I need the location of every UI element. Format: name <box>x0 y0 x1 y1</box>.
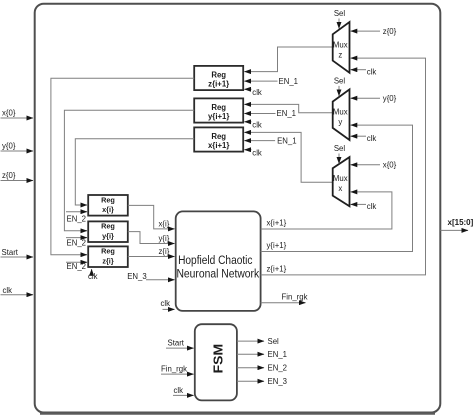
svg-text:clk: clk <box>252 88 262 97</box>
clk pin Mux z <box>351 67 377 76</box>
svg-text:Neuronal Network: Neuronal Network <box>176 267 259 281</box>
svg-text:Fin_rgk: Fin_rgk <box>161 365 187 374</box>
svg-text:clk: clk <box>88 272 98 281</box>
svg-text:z{i}: z{i} <box>159 247 170 256</box>
svg-text:x{0}: x{0} <box>2 109 16 118</box>
svg-text:EN_2: EN_2 <box>67 238 87 247</box>
svg-text:clk: clk <box>3 286 13 295</box>
sel input Mux z <box>334 9 346 28</box>
svg-text:EN_1: EN_1 <box>277 136 297 145</box>
svg-text:x[15:0]: x[15:0] <box>448 218 474 227</box>
sel input Mux y <box>334 77 346 96</box>
svg-text:Start: Start <box>2 248 19 257</box>
svg-text:Mux: Mux <box>333 174 348 183</box>
svg-text:y: y <box>338 118 342 127</box>
signal EN_1 to Reg x{i+1} <box>244 136 296 145</box>
svg-text:Mux: Mux <box>333 40 348 49</box>
svg-text:z{i+1}: z{i+1} <box>208 80 229 89</box>
svg-text:z: z <box>338 50 342 59</box>
svg-text:clk: clk <box>174 386 184 395</box>
svg-text:FSM: FSM <box>211 344 225 374</box>
svg-text:z{i}: z{i} <box>102 256 114 265</box>
svg-text:Reg: Reg <box>211 103 226 112</box>
wire Reg z{i+1} Q to Reg z{i} D <box>51 78 194 255</box>
svg-text:EN_3: EN_3 <box>127 272 147 281</box>
svg-text:x{0}: x{0} <box>383 161 397 170</box>
input z{0} stub into Mux z <box>351 27 397 36</box>
signal EN_1 to Reg y{i+1} <box>244 109 296 118</box>
signal EN_3 to HCNN <box>127 272 174 281</box>
svg-text:x{i+1}: x{i+1} <box>208 141 229 150</box>
output EN_1 from FSM <box>237 350 287 359</box>
block U1 Hopfield Chaotic Neuronal Network <box>176 211 261 311</box>
svg-text:Sel: Sel <box>268 337 280 346</box>
svg-text:y{i}: y{i} <box>102 231 114 240</box>
input x{0} stub into Mux x <box>351 161 397 170</box>
svg-text:clk: clk <box>367 202 377 211</box>
svg-text:clk: clk <box>161 299 171 308</box>
clk pin Reg x{i+1} <box>244 148 262 157</box>
svg-text:z{i+1}: z{i+1} <box>267 264 287 273</box>
wire Reg y{i} to HCNN with net label y{i} <box>128 232 175 244</box>
register Reg x{i+1} <box>194 127 243 151</box>
svg-text:y{i+1}: y{i+1} <box>208 112 229 121</box>
svg-text:y{0}: y{0} <box>2 142 16 151</box>
register Reg x{i} <box>88 195 128 216</box>
input y{0} stub into Mux y <box>351 94 397 103</box>
signal EN_2 to Reg z{i} <box>66 262 87 271</box>
sel input Mux x <box>334 144 346 163</box>
svg-text:Mux: Mux <box>333 108 348 117</box>
svg-text:EN_1: EN_1 <box>268 350 288 359</box>
wire Reg x{i+1} Q to Reg x{i} D <box>75 139 194 205</box>
output Fin_rgk from HCNN <box>261 292 308 302</box>
register Reg y{i+1} <box>194 98 243 122</box>
svg-text:x{i}: x{i} <box>102 205 114 214</box>
clk pin HCNN <box>161 299 175 310</box>
signal EN_1 to Reg z{i+1} <box>244 77 298 86</box>
input Start to FSM <box>166 339 194 348</box>
input port y{0} <box>1 142 34 152</box>
svg-text:Reg: Reg <box>101 247 115 256</box>
wire z{i+1}: HCNN output to Mux z feedback, net label z{i+1} <box>261 58 426 275</box>
clk pin Mux y <box>351 134 377 143</box>
clk pin Reg z{i} <box>88 269 98 281</box>
svg-text:Reg: Reg <box>211 132 226 141</box>
wire Mux y output to Reg y{i+1} D input <box>244 104 332 112</box>
svg-text:y{i}: y{i} <box>159 234 170 243</box>
svg-text:x{i+1}: x{i+1} <box>267 219 287 228</box>
wire x{i+1}: HCNN output to Mux x feedback, net label x{i+1} <box>261 192 392 229</box>
svg-text:clk: clk <box>367 134 377 143</box>
register Reg z{i} <box>88 246 128 267</box>
output port x[15:0] <box>440 218 473 230</box>
input port x{0} <box>1 109 34 119</box>
wire Mux x output to Reg x{i+1} D input <box>244 132 332 182</box>
wire Reg z{i} to HCNN with net label z{i} <box>128 247 175 257</box>
clk pin Mux x <box>351 202 377 211</box>
output EN_3 from FSM <box>237 377 287 386</box>
wire Reg x{i} to HCNN with net label x{i} <box>128 205 175 229</box>
input port Start <box>1 248 34 257</box>
wire Mux z output to Reg z{i+1} D input <box>244 47 332 72</box>
output EN_2 from FSM <box>237 363 287 372</box>
signal EN_2 to Reg y{i} <box>66 238 87 248</box>
svg-text:EN_2: EN_2 <box>67 215 87 224</box>
input port clk <box>1 286 34 295</box>
block FSM <box>195 324 237 400</box>
svg-text:z{0}: z{0} <box>2 171 16 180</box>
wire y{i+1}: HCNN output to Mux y feedback, net label y{i+1} <box>261 125 413 251</box>
svg-text:Sel: Sel <box>334 9 346 18</box>
svg-text:Hopfield Chaotic: Hopfield Chaotic <box>178 253 252 267</box>
output Sel from FSM <box>237 337 279 346</box>
wire Reg y{i+1} Q to Reg y{i} D <box>64 110 194 231</box>
svg-text:clk: clk <box>252 121 262 130</box>
svg-text:clk: clk <box>367 67 377 76</box>
svg-text:EN_1: EN_1 <box>277 109 297 118</box>
clk pin Reg y{i+1} <box>244 121 262 130</box>
svg-text:EN_2: EN_2 <box>67 262 87 271</box>
input Fin_rgk to FSM <box>161 365 194 374</box>
clk pin FSM <box>173 386 194 395</box>
svg-text:Fin_rgk: Fin_rgk <box>282 292 308 301</box>
svg-text:Reg: Reg <box>101 222 115 231</box>
signal EN_2 to Reg x{i} <box>66 212 87 224</box>
svg-text:Sel: Sel <box>334 144 346 153</box>
clk pin Reg z{i+1} <box>244 88 262 97</box>
svg-text:Start: Start <box>168 339 185 348</box>
input port z{0} <box>1 171 34 181</box>
svg-text:y{i+1}: y{i+1} <box>267 241 287 250</box>
mux Mux x <box>333 157 350 206</box>
svg-text:x{i}: x{i} <box>159 219 170 228</box>
mux Mux z <box>333 22 350 73</box>
svg-text:EN_2: EN_2 <box>268 363 288 372</box>
svg-text:Sel: Sel <box>334 77 346 86</box>
mux Mux y <box>333 89 350 140</box>
svg-text:clk: clk <box>252 148 262 157</box>
svg-text:x: x <box>338 184 342 193</box>
enclosure bottom edge shade <box>40 413 435 415</box>
register Reg z{i+1} <box>194 66 243 90</box>
svg-text:EN_3: EN_3 <box>268 377 288 386</box>
svg-text:y{0}: y{0} <box>383 94 397 103</box>
svg-text:Reg: Reg <box>101 195 115 204</box>
svg-text:EN_1: EN_1 <box>279 77 299 86</box>
register Reg y{i} <box>88 221 128 242</box>
svg-text:Reg: Reg <box>211 70 226 79</box>
svg-text:z{0}: z{0} <box>383 27 397 36</box>
